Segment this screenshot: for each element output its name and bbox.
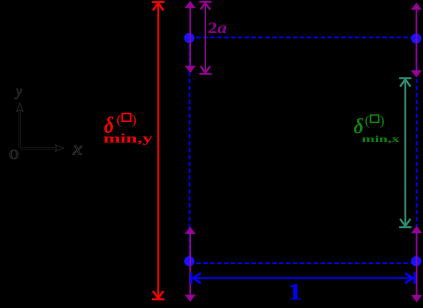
svg-text:x: x bbox=[72, 139, 83, 159]
svg-text:min,x: min,x bbox=[362, 133, 400, 144]
magenta double arrow through bottom-right dot bbox=[411, 226, 422, 302]
svg-text:(: ( bbox=[365, 114, 370, 129]
svg-text:): ) bbox=[131, 112, 136, 127]
svg-text:2a: 2a bbox=[208, 19, 227, 37]
blue lattice dot top-left bbox=[184, 33, 194, 43]
svg-text:): ) bbox=[380, 114, 385, 129]
blue lattice dot bottom-right bbox=[411, 256, 421, 266]
dashed square left edge bbox=[189, 37, 191, 263]
green delta_min,x dimension arrow with end bars bbox=[399, 78, 411, 227]
magenta double arrow through bottom-left dot bbox=[185, 227, 196, 302]
blue lattice dot bottom-left bbox=[184, 256, 194, 266]
label y (black, axis) bbox=[14, 85, 23, 100]
svg-text:1: 1 bbox=[287, 279, 302, 305]
blue lattice dot top-right bbox=[411, 33, 421, 43]
label 2a (magenta) bbox=[208, 19, 227, 37]
blue unit width dimension arrow with end bars bbox=[191, 272, 414, 284]
svg-text:(: ( bbox=[116, 112, 121, 127]
label 0 at origin (black) bbox=[9, 147, 19, 163]
label 1 (blue) bbox=[287, 279, 302, 305]
svg-text:0: 0 bbox=[9, 147, 19, 163]
magenta double arrow through top-right dot bbox=[411, 3, 422, 78]
magenta double arrow through top-left dot bbox=[185, 1, 196, 73]
label delta^(square)_min,y (red) bbox=[103, 112, 153, 146]
magenta 2a dimension arrow with end bars bbox=[199, 2, 211, 74]
svg-text:y: y bbox=[14, 85, 23, 100]
dashed square top edge bbox=[189, 36, 416, 38]
y-axis (black) bbox=[17, 103, 23, 149]
dashed square right edge bbox=[416, 37, 418, 263]
label delta^(square)_min,x (green) bbox=[354, 114, 401, 145]
svg-text:min,y: min,y bbox=[103, 132, 153, 146]
dashed square bottom edge bbox=[189, 262, 416, 264]
label x (black, axis) bbox=[72, 139, 83, 159]
x-axis (black) bbox=[19, 145, 64, 151]
red delta_min,y dimension arrow with end bars bbox=[152, 2, 165, 299]
